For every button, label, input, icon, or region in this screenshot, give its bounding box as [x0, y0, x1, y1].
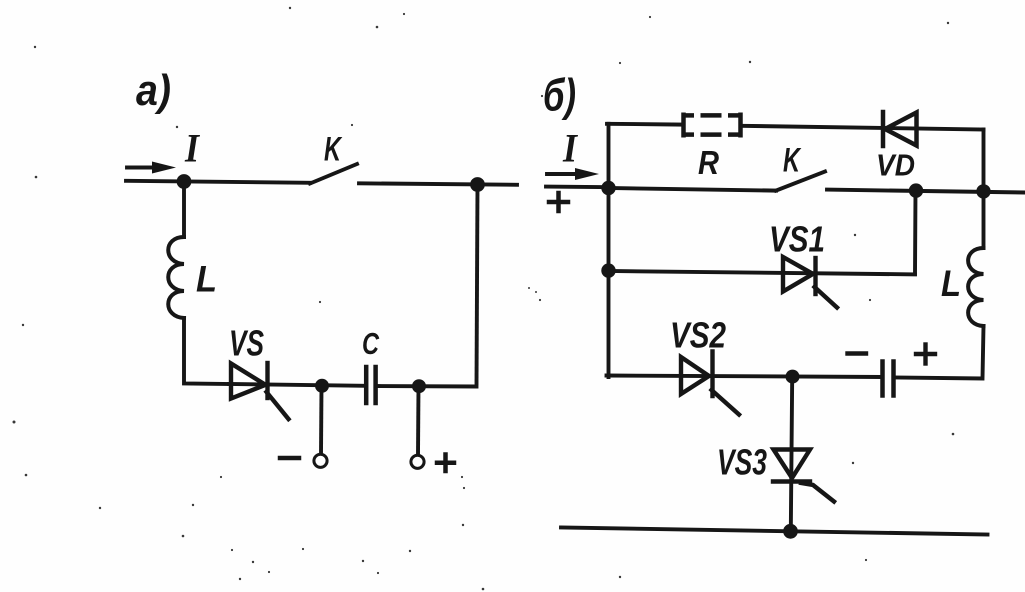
wire: VS1 row (b) [609, 271, 916, 274]
wire: plus node down to terminal (a) [416, 386, 420, 455]
minus sign at capacitor (b) [848, 351, 867, 355]
wire: bottom rail through thyristor (a) [229, 384, 364, 386]
svg-text:K: K [324, 131, 343, 169]
svg-text:VS3: VS3 [717, 442, 767, 483]
wire: switch to right edge (b) [827, 190, 1025, 193]
node: VS1 top junction (b) [909, 183, 923, 197]
svg-text:б): б) [543, 70, 576, 121]
wire: minus node down to terminal (a) [319, 386, 323, 454]
inductor L (a) [168, 237, 184, 318]
inductor L (b) [968, 248, 983, 326]
node: VS3 top junction (b) [786, 370, 800, 384]
capacitor C (b) [883, 362, 894, 396]
svg-text:I: I [562, 126, 578, 171]
current arrow I (b) [547, 168, 599, 180]
wire: bottom rail left section (b) [607, 376, 882, 378]
thyristor VS2 (b) [681, 352, 739, 415]
wire: main rail node to switch (b) [608, 188, 776, 191]
svg-text:K: K [783, 142, 802, 180]
minus sign (a) [280, 456, 299, 461]
resistor R dashed box (b) [682, 113, 743, 138]
plus sign at input (b) [549, 193, 568, 211]
svg-text:VS1: VS1 [769, 219, 825, 260]
svg-text:C: C [362, 326, 379, 361]
diode VD (b) [883, 112, 917, 146]
svg-text:VS: VS [229, 323, 264, 364]
capacitor C (a) [366, 367, 375, 403]
node: plus terminal junction (a) [412, 379, 426, 393]
wire: node down to inductor (a) [182, 181, 186, 237]
wire: resistor to diode to right corner (b) [741, 126, 984, 130]
node: input junction (b) [601, 181, 615, 195]
plus sign at capacitor (b) [916, 345, 935, 364]
node: right bus junction (b) [976, 184, 990, 198]
plus sign (a) [437, 455, 454, 472]
wire: left vertical bus (b) [607, 124, 611, 377]
current arrow I (a) [127, 162, 176, 174]
svg-text:VS2: VS2 [670, 315, 726, 356]
svg-text:L: L [196, 259, 217, 300]
wire: VS3 branch vertical (b) [791, 377, 792, 531]
node: VS1 left junction (b) [601, 263, 615, 277]
wire: inductor down to bottom rail (a) [184, 318, 231, 384]
wire: right bus down to inductor (b) [982, 130, 986, 249]
wire: capacitor to right vertical (a) [376, 384, 476, 388]
wire: right vertical (a) [477, 185, 478, 387]
wire: VS1 branch down from node (b) [913, 191, 917, 274]
terminal circle minus (a) [314, 454, 327, 467]
wire: entry stub (b) [546, 185, 610, 189]
svg-text:а): а) [136, 66, 171, 115]
svg-text:VD: VD [876, 148, 915, 183]
wire: bottom line (b) [561, 528, 988, 535]
node: top-right junction (a) [470, 177, 485, 192]
wire: left entry to switch (a) [126, 181, 310, 183]
wire: switch to right node (a) [359, 183, 517, 185]
thyristor VS1 (b) [783, 257, 837, 308]
node: minus terminal junction (a) [315, 379, 329, 393]
switch K arm (a) [310, 164, 357, 184]
thyristor VS3 (b) [773, 450, 834, 502]
wire: inductor down to bottom-right corner (b) [894, 326, 984, 379]
wire: top rail to resistor (b) [607, 122, 683, 127]
node: bottom junction (b) [783, 524, 798, 539]
svg-text:R: R [698, 144, 719, 181]
node: input junction (a) [177, 174, 192, 189]
switch K arm (b) [776, 172, 825, 191]
thyristor VS (a) [231, 363, 289, 419]
terminal circle plus (a) [411, 455, 424, 468]
svg-text:I: I [184, 126, 200, 171]
svg-text:L: L [941, 263, 961, 304]
